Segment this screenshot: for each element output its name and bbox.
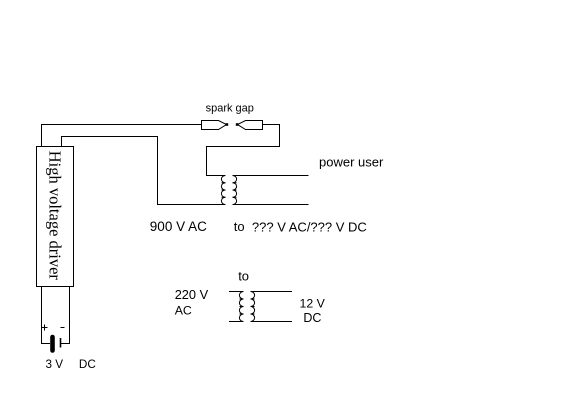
svg-text:3 V: 3 V: [46, 358, 64, 371]
svg-text:AC: AC: [175, 303, 192, 317]
svg-text:spark gap: spark gap: [206, 103, 254, 115]
svg-text:DC: DC: [303, 311, 321, 325]
svg-text:to: to: [238, 268, 249, 283]
svg-text:12 V: 12 V: [300, 297, 326, 311]
svg-text:DC: DC: [79, 358, 96, 371]
svg-text:power user: power user: [319, 154, 384, 169]
svg-text:??? V AC/??? V DC: ??? V AC/??? V DC: [252, 219, 367, 234]
svg-text:900 V AC: 900 V AC: [150, 219, 207, 234]
svg-text:High voltage driver: High voltage driver: [45, 151, 64, 281]
svg-text:to: to: [234, 219, 245, 234]
svg-text:220 V: 220 V: [175, 287, 209, 302]
